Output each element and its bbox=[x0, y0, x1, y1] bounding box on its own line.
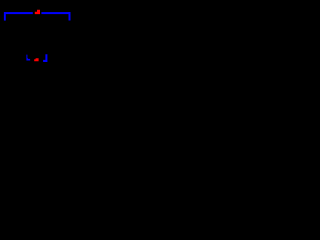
wire: horizontal rail right segment bbox=[41, 12, 70, 14]
left end tick bbox=[4, 12, 6, 21]
lower-right blue corner bracket bbox=[43, 54, 47, 62]
red marker M1 (on rail) bbox=[35, 10, 40, 14]
wire: horizontal rail left segment bbox=[4, 12, 33, 14]
right end tick bbox=[69, 12, 71, 20]
lower-left blue corner bracket bbox=[26, 55, 30, 61]
background bbox=[0, 0, 74, 74]
red marker M2 (lower) bbox=[34, 58, 38, 61]
